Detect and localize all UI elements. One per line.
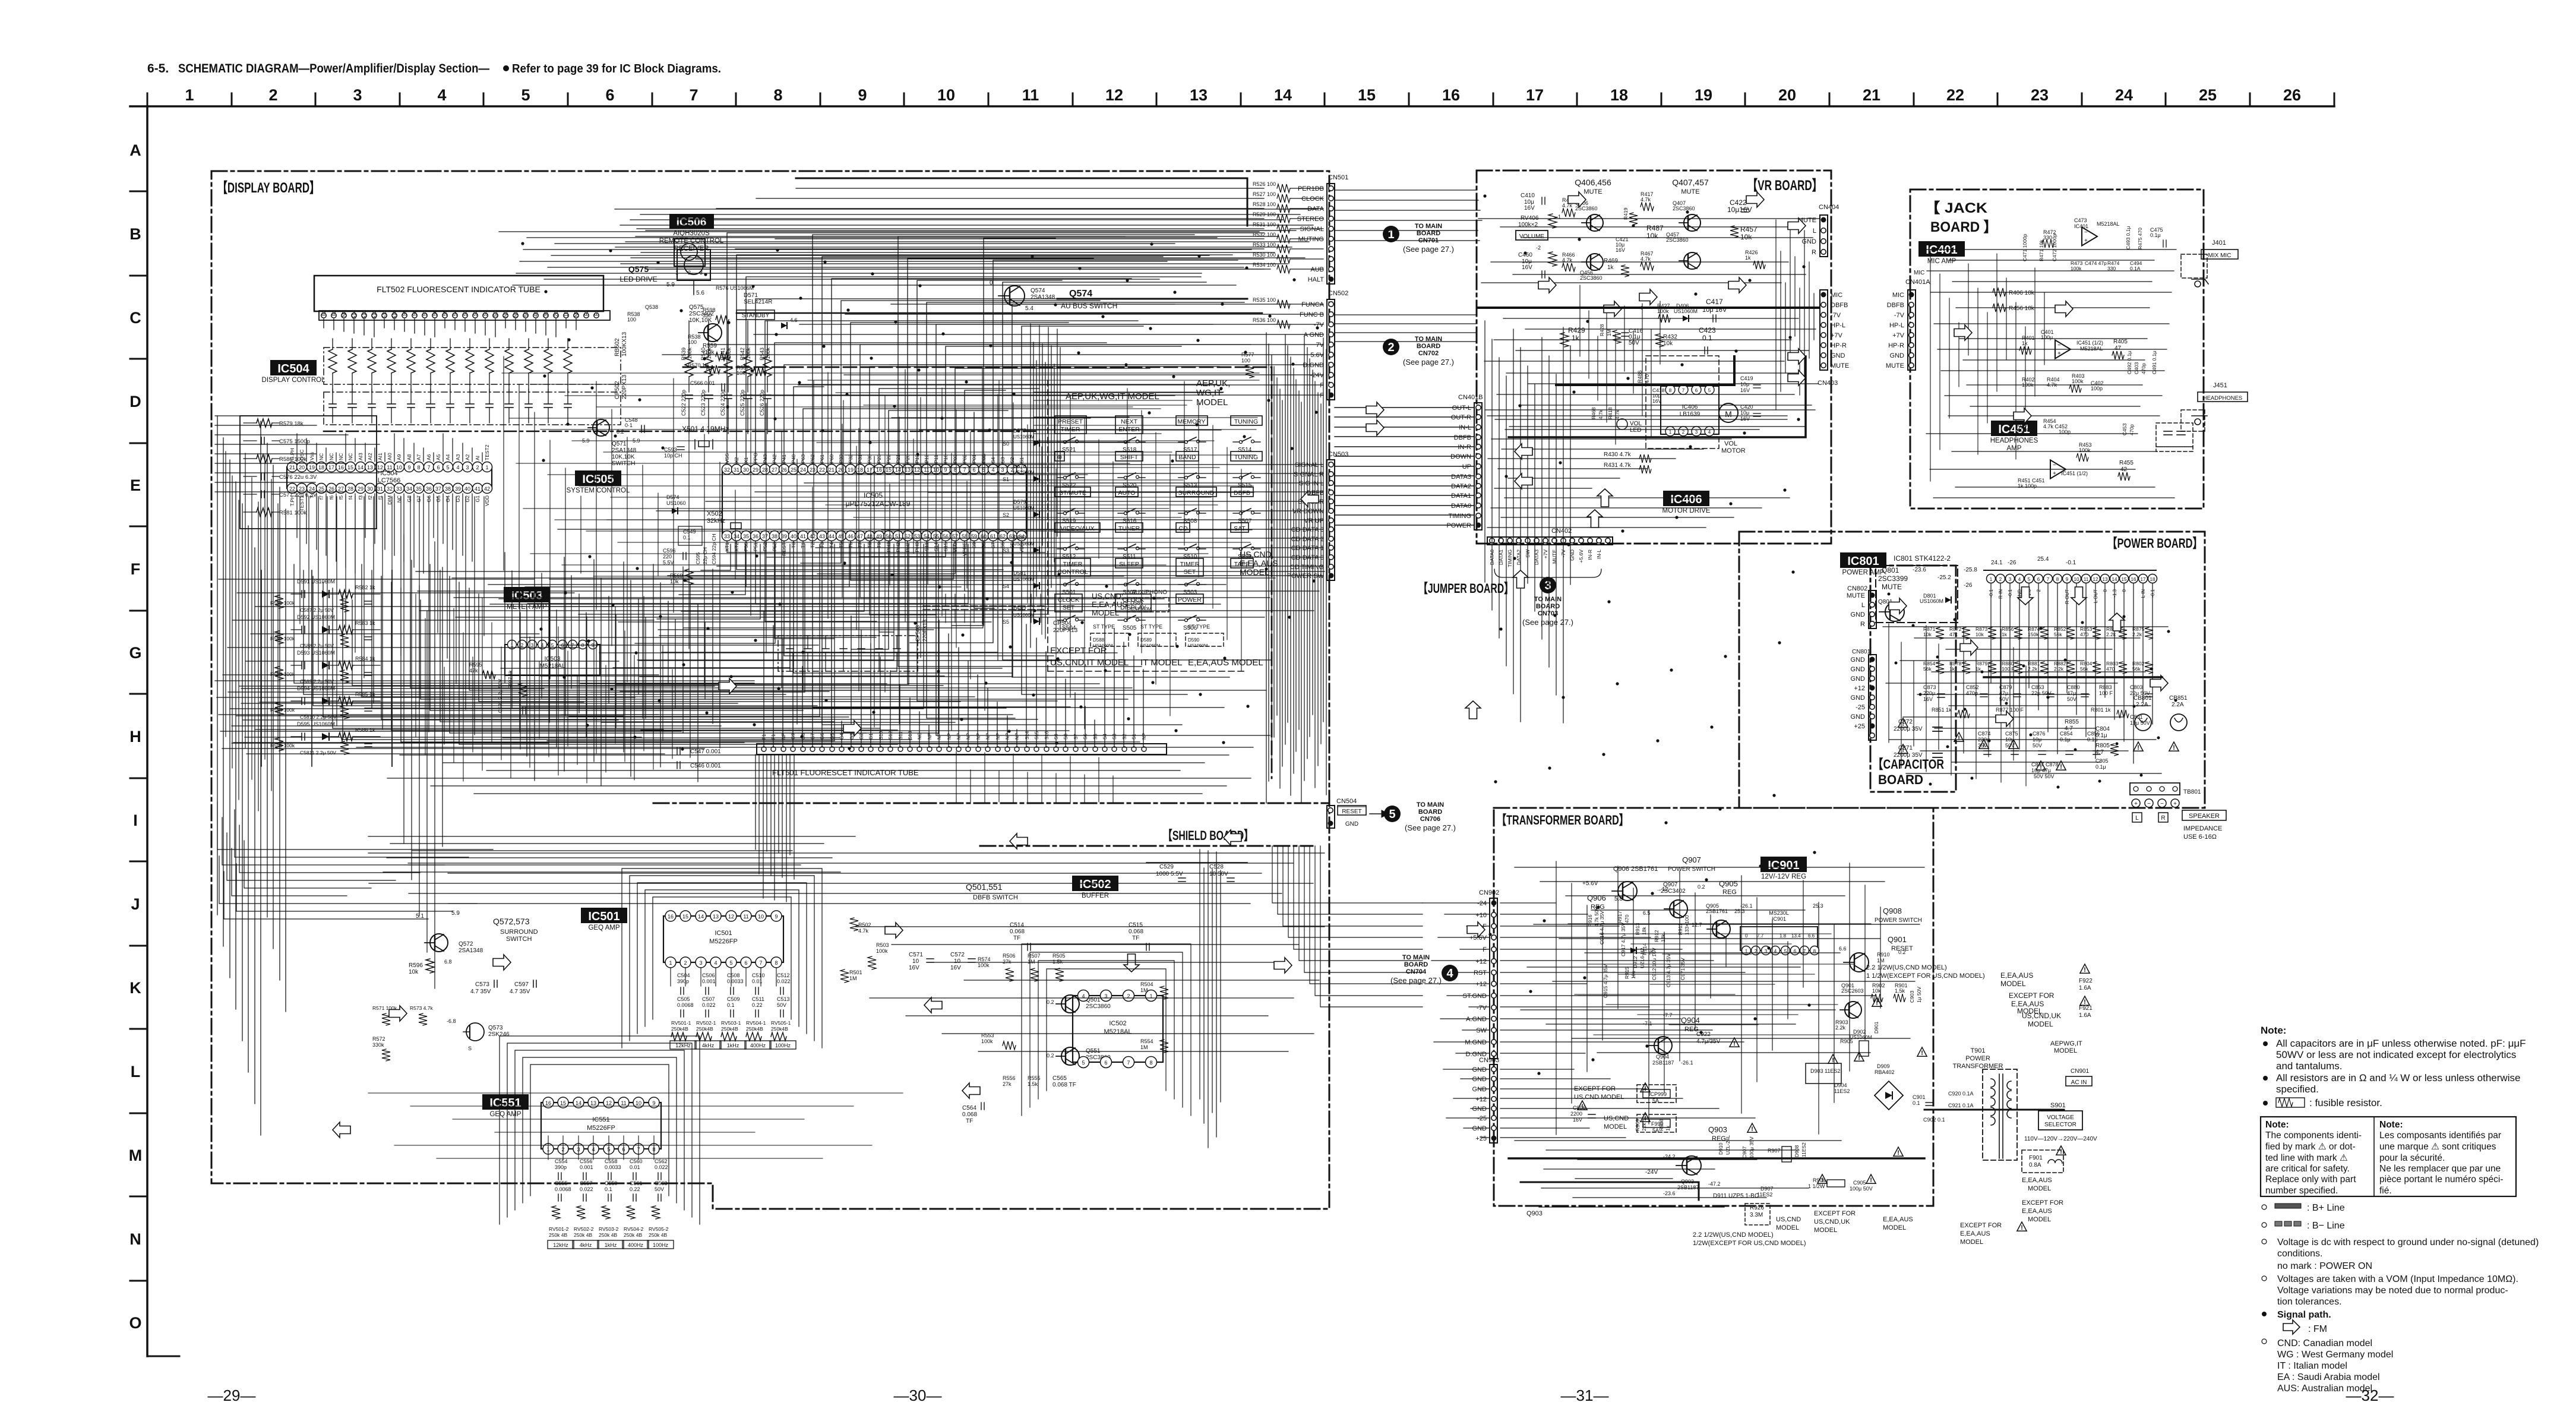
notes legend lines bbox=[2262, 1203, 2539, 1394]
svg-text:C513: C513 bbox=[777, 996, 790, 1002]
svg-text:R534 100: R534 100 bbox=[1253, 262, 1276, 268]
svg-text:+5.6V: +5.6V bbox=[1578, 549, 1584, 563]
svg-text:F: F bbox=[131, 560, 141, 578]
svg-text:US,CND MODEL: US,CND MODEL bbox=[1574, 1094, 1624, 1101]
headphones jack J451 bbox=[2181, 382, 2248, 431]
svg-text:specified.: specified. bbox=[2276, 1084, 2319, 1095]
svg-text:5: 5 bbox=[521, 86, 530, 104]
connector CN801 bbox=[1851, 649, 1876, 740]
svg-text:1k: 1k bbox=[2022, 340, 2028, 346]
Q906 regulator bbox=[1582, 866, 1669, 911]
volume pot RV406 bbox=[1516, 192, 1561, 278]
to main board CN701 callout 1 bbox=[1383, 223, 1454, 254]
svg-text:13: 13 bbox=[713, 914, 719, 920]
svg-text:8: 8 bbox=[773, 86, 782, 104]
svg-text:26: 26 bbox=[2283, 86, 2301, 104]
svg-text:S11: S11 bbox=[381, 310, 387, 319]
svg-text:9: 9 bbox=[775, 914, 777, 920]
svg-text:HP-R: HP-R bbox=[1888, 342, 1904, 349]
svg-text:390p: 390p bbox=[677, 978, 689, 984]
IC503 meter amp chip bbox=[505, 640, 600, 676]
svg-text:C474 47p: C474 47p bbox=[2085, 260, 2107, 266]
svg-text:390p: 390p bbox=[555, 1164, 567, 1170]
svg-text:C913 4.7μ 35V: C913 4.7μ 35V bbox=[1665, 953, 1671, 987]
svg-text:C507: C507 bbox=[702, 996, 715, 1002]
svg-text:Q575: Q575 bbox=[628, 264, 649, 274]
model boundary dashed lines bbox=[683, 367, 1272, 778]
transistor Q574 AU bus switch bbox=[737, 280, 1262, 313]
svg-text:D579: D579 bbox=[1013, 499, 1026, 505]
svg-text:R855: R855 bbox=[2065, 719, 2079, 725]
svg-text:R916: R916 bbox=[1587, 914, 1593, 927]
to main board CN703 callout 3 bbox=[1494, 569, 1601, 627]
svg-text:250k4B: 250k4B bbox=[721, 1026, 738, 1032]
svg-text:-7V: -7V bbox=[1477, 1005, 1487, 1012]
svg-text:-24V: -24V bbox=[1310, 372, 1325, 379]
svg-text:250k4B: 250k4B bbox=[771, 1026, 788, 1032]
svg-text:CN403: CN403 bbox=[1818, 380, 1838, 387]
svg-text:C575 1500p: C575 1500p bbox=[279, 438, 310, 445]
svg-text:6.6: 6.6 bbox=[1839, 946, 1847, 952]
svg-text:VOL: VOL bbox=[1724, 440, 1737, 447]
svg-text:CD: CD bbox=[1178, 525, 1188, 532]
svg-text:0: 0 bbox=[990, 280, 993, 286]
svg-text:UZL-24L: UZL-24L bbox=[1725, 1135, 1731, 1155]
svg-text:!: ! bbox=[1644, 1085, 1646, 1092]
svg-text:MS230L: MS230L bbox=[1769, 910, 1789, 916]
svg-text:1.6A: 1.6A bbox=[2079, 985, 2091, 991]
svg-text:R805: R805 bbox=[2095, 743, 2110, 749]
svg-text:22k: 22k bbox=[1641, 1123, 1647, 1131]
svg-text:C564: C564 bbox=[962, 1105, 976, 1111]
svg-text:EXCEPT FOR: EXCEPT FOR bbox=[2009, 991, 2055, 1000]
svg-text:R: R bbox=[1812, 249, 1816, 256]
svg-text:0.1: 0.1 bbox=[605, 1186, 612, 1192]
svg-text:10: 10 bbox=[2074, 577, 2079, 582]
svg-text:F999: F999 bbox=[1651, 1121, 1664, 1127]
svg-text:AU BUS SWITCH: AU BUS SWITCH bbox=[1061, 302, 1117, 310]
svg-text:6: 6 bbox=[2037, 577, 2040, 582]
svg-text:C472 1000p: C472 1000p bbox=[2052, 233, 2057, 261]
svg-text:MODEL: MODEL bbox=[2028, 1020, 2053, 1028]
svg-text:28: 28 bbox=[347, 486, 353, 492]
svg-text:Les composants identifiés par: Les composants identifiés par bbox=[2379, 1130, 2501, 1141]
svg-text:3: 3 bbox=[699, 960, 702, 966]
svg-text:-0.1: -0.1 bbox=[2066, 560, 2076, 566]
svg-text:SEL4214R: SEL4214R bbox=[744, 299, 772, 305]
svg-text:−: − bbox=[2057, 342, 2061, 349]
svg-text:0.2: 0.2 bbox=[1047, 999, 1054, 1005]
svg-text:5A: 5A bbox=[1652, 1127, 1659, 1133]
svg-text:EXCEPT FOR: EXCEPT FOR bbox=[1814, 1210, 1856, 1217]
svg-text:27k: 27k bbox=[1003, 959, 1012, 965]
svg-text:Q572,573: Q572,573 bbox=[493, 917, 530, 926]
svg-text:DATA1: DATA1 bbox=[1451, 492, 1471, 500]
svg-text:56k: 56k bbox=[2054, 631, 2062, 637]
svg-text:GND: GND bbox=[1851, 666, 1866, 673]
svg-text:17: 17 bbox=[328, 465, 334, 470]
svg-text:conditions.: conditions. bbox=[2277, 1249, 2323, 1259]
svg-text:2SK246: 2SK246 bbox=[488, 1031, 510, 1038]
svg-text:D907: D907 bbox=[1760, 1186, 1774, 1192]
svg-text:10μ 50V: 10μ 50V bbox=[2130, 720, 2150, 726]
svg-text:AUTO: AUTO bbox=[1118, 489, 1136, 497]
svg-text:-7V: -7V bbox=[1894, 312, 1905, 319]
svg-text:FLT502 FLUORESCENT INDICATOR T: FLT502 FLUORESCENT INDICATOR TUBE bbox=[377, 285, 541, 294]
svg-text:RB502: RB502 bbox=[614, 338, 621, 356]
svg-text:47k: 47k bbox=[469, 668, 478, 674]
svg-text:6: 6 bbox=[1695, 388, 1698, 393]
svg-text:VR DOWN: VR DOWN bbox=[1292, 508, 1324, 515]
svg-text:Q904: Q904 bbox=[1656, 1054, 1669, 1060]
svg-text:MOTOR: MOTOR bbox=[1721, 447, 1746, 454]
svg-text:D593 US1060M: D593 US1060M bbox=[297, 650, 335, 656]
meter amp left rail bbox=[261, 570, 392, 766]
wire maze FLT501 risers bbox=[499, 599, 1164, 746]
svg-text:WG : West Germany model: WG : West Germany model bbox=[2277, 1350, 2393, 1360]
svg-text:R487: R487 bbox=[1646, 224, 1664, 232]
svg-text:DBFB: DBFB bbox=[1454, 434, 1471, 441]
svg-text:C493 0.1μ: C493 0.1μ bbox=[2125, 226, 2131, 249]
svg-text:CP502: CP502 bbox=[614, 381, 621, 399]
svg-text:-24: -24 bbox=[1477, 900, 1487, 907]
svg-text:UP: UP bbox=[1462, 463, 1471, 470]
svg-text:SURROUND: SURROUND bbox=[1178, 489, 1215, 497]
svg-text:R554: R554 bbox=[1140, 1038, 1153, 1044]
svg-text:35: 35 bbox=[416, 486, 422, 492]
svg-text:6-5.: 6-5. bbox=[147, 62, 169, 75]
warning triangles bbox=[1578, 718, 2179, 1231]
svg-text:C423: C423 bbox=[1699, 326, 1716, 334]
svg-text:C901: C901 bbox=[1913, 1094, 1926, 1100]
svg-text:TIMER: TIMER bbox=[1180, 561, 1200, 568]
svg-text:CN501: CN501 bbox=[1328, 174, 1348, 181]
svg-text:C594 22p CH: C594 22p CH bbox=[711, 533, 717, 564]
svg-text:6.5: 6.5 bbox=[1643, 910, 1651, 916]
svg-text:5: 5 bbox=[1389, 808, 1395, 821]
svg-text:-23.6: -23.6 bbox=[1663, 1190, 1676, 1196]
svg-text:ST/MUTE: ST/MUTE bbox=[1059, 489, 1086, 497]
svg-text:R456 10k: R456 10k bbox=[2009, 305, 2035, 312]
Q903 regulator bbox=[1645, 1125, 1873, 1199]
svg-text:C526 220p: C526 220p bbox=[759, 390, 765, 416]
svg-text:15: 15 bbox=[347, 465, 353, 470]
svg-text:G8: G8 bbox=[406, 495, 412, 503]
svg-text:220PX13: 220PX13 bbox=[1053, 627, 1078, 634]
svg-text:4.7k: 4.7k bbox=[1641, 197, 1651, 203]
svg-text:43: 43 bbox=[819, 533, 825, 539]
svg-text:330k: 330k bbox=[372, 1042, 384, 1048]
svg-text:!: ! bbox=[1897, 1149, 1899, 1157]
svg-text:NC: NC bbox=[338, 453, 344, 460]
svg-text:12V/-12V REG: 12V/-12V REG bbox=[1761, 873, 1806, 880]
svg-text:C873: C873 bbox=[1923, 684, 1936, 690]
svg-text:100k: 100k bbox=[876, 948, 888, 954]
svg-text:+10: +10 bbox=[1475, 912, 1487, 919]
svg-text:C: C bbox=[129, 309, 141, 327]
svg-text:2: 2 bbox=[476, 465, 479, 470]
svg-text:D903 11ES2: D903 11ES2 bbox=[1810, 1068, 1840, 1074]
svg-text:CN706: CN706 bbox=[1420, 816, 1440, 823]
svg-text:C576 22u 6.3V: C576 22u 6.3V bbox=[279, 474, 317, 481]
svg-text:22μ 50V: 22μ 50V bbox=[2031, 690, 2052, 696]
svg-text:BOARD 】: BOARD 】 bbox=[1930, 219, 1997, 235]
svg-text:12kHz: 12kHz bbox=[553, 1242, 568, 1248]
svg-text:IC401: IC401 bbox=[2074, 223, 2088, 229]
connector CN504 bbox=[1327, 798, 1389, 828]
svg-text:A8: A8 bbox=[406, 454, 412, 460]
svg-text:7: 7 bbox=[1682, 388, 1685, 393]
wire halo IC551 bbox=[500, 1036, 700, 1224]
svg-text:6.8: 6.8 bbox=[444, 959, 452, 965]
svg-text:22: 22 bbox=[289, 486, 295, 492]
wire horizontals above shield band bbox=[356, 747, 1253, 802]
svg-text:-7V: -7V bbox=[1314, 321, 1325, 329]
svg-text:A5: A5 bbox=[435, 454, 441, 460]
svg-text:R507: R507 bbox=[1028, 953, 1041, 959]
Q908 power switch bbox=[1839, 907, 1922, 972]
svg-text:I: I bbox=[133, 811, 138, 829]
svg-text:33: 33 bbox=[724, 533, 730, 539]
svg-text:R907: R907 bbox=[1768, 1148, 1781, 1154]
svg-text:31: 31 bbox=[734, 467, 739, 473]
svg-text:!: ! bbox=[1733, 1040, 1736, 1047]
IC505 pin name labels bbox=[724, 453, 1025, 556]
IC801 label bbox=[1840, 552, 1886, 576]
svg-text:E,EA,AUS: E,EA,AUS bbox=[1960, 1230, 1990, 1237]
svg-text:100 F: 100 F bbox=[2099, 690, 2113, 696]
svg-text:47μ: 47μ bbox=[2067, 690, 2076, 696]
IC451 label bbox=[1990, 421, 2038, 452]
svg-text:ST.GND: ST.GND bbox=[1463, 993, 1487, 1000]
svg-text:MODEL: MODEL bbox=[2000, 980, 2026, 988]
svg-text:C920 0.1A: C920 0.1A bbox=[1948, 1091, 1974, 1097]
svg-text:US1060M: US1060M bbox=[1674, 308, 1698, 314]
svg-text:23: 23 bbox=[810, 467, 816, 473]
svg-text:POWER SWITCH: POWER SWITCH bbox=[1875, 917, 1922, 924]
svg-text:C562: C562 bbox=[655, 1158, 668, 1164]
IC551 capacitors below bbox=[555, 1158, 668, 1201]
svg-text:TIMING: TIMING bbox=[1507, 549, 1513, 567]
svg-text:C907: C907 bbox=[1741, 1146, 1747, 1158]
svg-text:0.1μ: 0.1μ bbox=[2095, 764, 2106, 770]
svg-text:(See page 27.): (See page 27.) bbox=[1522, 618, 1573, 627]
svg-text:N: N bbox=[129, 1230, 141, 1248]
R406 R456 resistors bbox=[1993, 288, 2035, 312]
svg-text:34: 34 bbox=[406, 486, 412, 492]
svg-text:R: R bbox=[1860, 621, 1865, 628]
svg-text:R405: R405 bbox=[2113, 339, 2128, 345]
svg-text:E,EA,AUS: E,EA,AUS bbox=[1883, 1216, 1913, 1223]
svg-text:400Hz: 400Hz bbox=[750, 1043, 766, 1048]
svg-text:5: 5 bbox=[1784, 949, 1787, 954]
svg-text:23: 23 bbox=[299, 486, 305, 492]
svg-text:AUX/PHONO: AUX/PHONO bbox=[1131, 589, 1167, 596]
svg-text:C523 220p: C523 220p bbox=[700, 390, 706, 416]
svg-text:Q538: Q538 bbox=[645, 304, 658, 310]
svg-text:0.0033: 0.0033 bbox=[727, 978, 744, 984]
svg-text:R: R bbox=[2161, 815, 2165, 822]
svg-text:1: 1 bbox=[1387, 228, 1394, 241]
svg-text:S505: S505 bbox=[1123, 625, 1137, 631]
svg-text:S507: S507 bbox=[1238, 518, 1252, 525]
Q901 reset bbox=[1835, 935, 1985, 1056]
crystal X502 32kHz bbox=[678, 510, 741, 545]
svg-text:16V: 16V bbox=[1740, 416, 1750, 422]
connector CN903 bbox=[1472, 1057, 1500, 1143]
svg-text:C875: C875 bbox=[2005, 731, 2018, 737]
svg-text:CN801: CN801 bbox=[1852, 649, 1871, 655]
svg-text:−: − bbox=[2147, 801, 2151, 807]
jumper board label bbox=[1418, 581, 1513, 596]
svg-text:CND: Canadian model: CND: Canadian model bbox=[2277, 1338, 2372, 1348]
svg-text:AUB: AUB bbox=[1310, 266, 1324, 273]
connector CN401B bbox=[1446, 394, 1483, 530]
svg-text:S508: S508 bbox=[1183, 518, 1197, 525]
svg-text:US1060M: US1060M bbox=[1093, 643, 1112, 648]
svg-text:IC505: IC505 bbox=[864, 491, 883, 500]
svg-text:D.GND: D.GND bbox=[1303, 362, 1325, 369]
svg-text:4: 4 bbox=[1446, 967, 1453, 980]
svg-text:-23.6: -23.6 bbox=[1913, 567, 1926, 573]
svg-text:A.GND: A.GND bbox=[1466, 1016, 1487, 1023]
svg-text:10μ16V: 10μ16V bbox=[1727, 206, 1752, 214]
capacitor row CP503 bbox=[778, 620, 928, 671]
svg-text:2200: 2200 bbox=[1570, 1111, 1582, 1117]
svg-text:μPD75212ACW-189: μPD75212ACW-189 bbox=[846, 500, 911, 508]
svg-text:: FM: : FM bbox=[2308, 1324, 2327, 1334]
svg-text:A7: A7 bbox=[416, 454, 422, 460]
svg-text:10: 10 bbox=[912, 958, 919, 965]
svg-text:IC451 (1/2): IC451 (1/2) bbox=[2076, 340, 2103, 346]
svg-text:MODEL: MODEL bbox=[1196, 397, 1228, 408]
svg-text:CN704: CN704 bbox=[1406, 968, 1427, 975]
svg-text:4: 4 bbox=[2018, 577, 2021, 582]
svg-text:R528 100: R528 100 bbox=[1253, 201, 1276, 207]
svg-text:G1: G1 bbox=[475, 495, 481, 503]
svg-text:R595: R595 bbox=[469, 662, 482, 668]
svg-text:250k 4B: 250k 4B bbox=[574, 1232, 593, 1238]
capacitor board outline bbox=[1870, 566, 1956, 792]
svg-text:IC501: IC501 bbox=[715, 930, 732, 937]
svg-text:US1060M: US1060M bbox=[1920, 598, 1943, 604]
svg-text:+: + bbox=[2173, 801, 2177, 807]
svg-text:1kHz: 1kHz bbox=[605, 1242, 617, 1248]
svg-text:0.022: 0.022 bbox=[777, 978, 791, 984]
svg-text:DBFB SWITCH: DBFB SWITCH bbox=[973, 894, 1018, 901]
svg-text:+: + bbox=[2134, 801, 2138, 807]
IC501 GEQ amp chip bbox=[663, 911, 783, 968]
svg-text:Q906: Q906 bbox=[1587, 893, 1606, 902]
svg-text:17: 17 bbox=[2141, 577, 2146, 582]
svg-text:50WV or less are not indicated: 50WV or less are not indicated except fo… bbox=[2276, 1049, 2516, 1060]
svg-text:0.1: 0.1 bbox=[1913, 1100, 1920, 1106]
svg-text:R926: R926 bbox=[1750, 1205, 1764, 1211]
jack board outline bbox=[1910, 189, 2204, 508]
svg-text:4.7k: 4.7k bbox=[858, 928, 869, 934]
svg-text:C419: C419 bbox=[1740, 375, 1753, 381]
svg-text:C805: C805 bbox=[2095, 758, 2109, 764]
svg-text:RV502-1: RV502-1 bbox=[696, 1020, 716, 1026]
svg-text:50V: 50V bbox=[1629, 340, 1639, 346]
svg-text:44: 44 bbox=[829, 533, 835, 539]
svg-text:1: 1 bbox=[185, 86, 194, 104]
T901 power transformer bbox=[1953, 1047, 2017, 1160]
IC501 label bbox=[581, 908, 627, 931]
wire density boost center right bbox=[808, 380, 1259, 729]
svg-text:10μ: 10μ bbox=[1740, 381, 1749, 387]
wire density boost meter area bbox=[416, 594, 672, 783]
svg-text:100k: 100k bbox=[687, 348, 693, 359]
fuses CB801 CB851 bbox=[2134, 695, 2188, 731]
svg-text:9: 9 bbox=[407, 465, 410, 470]
svg-text:C561: C561 bbox=[630, 1180, 643, 1186]
svg-text:56k: 56k bbox=[1923, 666, 1932, 672]
svg-text:-2: -2 bbox=[1536, 245, 1541, 251]
svg-text:: fusible resistor.: : fusible resistor. bbox=[2309, 1097, 2382, 1108]
svg-text:0.22: 0.22 bbox=[752, 1002, 763, 1008]
svg-text:1.5k: 1.5k bbox=[1895, 988, 1905, 994]
svg-text:13: 13 bbox=[1190, 86, 1208, 104]
svg-text:Q908: Q908 bbox=[1883, 907, 1902, 915]
svg-text:D909: D909 bbox=[1877, 1063, 1890, 1069]
svg-text:TF: TF bbox=[1132, 935, 1139, 942]
svg-text:C571: C571 bbox=[909, 952, 923, 958]
svg-text:The components identi-: The components identi- bbox=[2265, 1130, 2362, 1141]
svg-text:SET: SET bbox=[1184, 568, 1196, 576]
svg-text:!: ! bbox=[2060, 1148, 2062, 1155]
svg-text:35: 35 bbox=[743, 533, 749, 539]
svg-text:11ES2: 11ES2 bbox=[1757, 1192, 1772, 1198]
svg-text:+: + bbox=[2053, 470, 2056, 477]
svg-text:27: 27 bbox=[338, 486, 344, 492]
svg-text:!: ! bbox=[1902, 747, 1904, 754]
svg-text:S14: S14 bbox=[351, 310, 357, 319]
svg-text:NC: NC bbox=[328, 453, 334, 460]
svg-text:16: 16 bbox=[338, 465, 344, 470]
svg-text:15: 15 bbox=[1358, 86, 1376, 104]
svg-text:26: 26 bbox=[328, 486, 334, 492]
svg-text:11: 11 bbox=[1022, 86, 1039, 104]
svg-text:S12: S12 bbox=[371, 310, 377, 319]
svg-text:25: 25 bbox=[2199, 86, 2217, 104]
svg-text:E: E bbox=[130, 476, 141, 494]
svg-text:S: S bbox=[468, 1046, 472, 1051]
svg-text:R579 18k: R579 18k bbox=[279, 421, 304, 427]
svg-text:R883: R883 bbox=[2099, 684, 2112, 690]
wire maze right vertical bundle bbox=[1266, 333, 1326, 803]
svg-text:AEPWG,IT: AEPWG,IT bbox=[2050, 1040, 2082, 1047]
svg-text:R905: R905 bbox=[1840, 1038, 1853, 1044]
svg-text:11: 11 bbox=[2084, 577, 2089, 582]
svg-text:C852: C852 bbox=[1966, 684, 1979, 690]
svg-text:NC: NC bbox=[347, 453, 353, 460]
svg-text:pour la sécurité.: pour la sécurité. bbox=[2379, 1153, 2445, 1163]
svg-text:L: L bbox=[131, 1063, 141, 1081]
Q575 transistor 2SC3402 bbox=[689, 304, 722, 342]
svg-text:6: 6 bbox=[437, 465, 440, 470]
svg-text:5: 5 bbox=[1708, 388, 1711, 393]
D571 SEL4214R bbox=[744, 292, 772, 305]
svg-text:0.01: 0.01 bbox=[630, 1164, 640, 1170]
meter amp diode cells D591-D595 bbox=[270, 579, 380, 756]
svg-text:GND: GND bbox=[1472, 1076, 1487, 1083]
svg-text:-47.2: -47.2 bbox=[1708, 1181, 1721, 1187]
heavy dash bus under cap array bbox=[324, 431, 1039, 432]
svg-text:20: 20 bbox=[299, 465, 305, 470]
svg-text:SELECTOR: SELECTOR bbox=[2044, 1122, 2076, 1128]
svg-text:f6: f6 bbox=[328, 495, 334, 500]
